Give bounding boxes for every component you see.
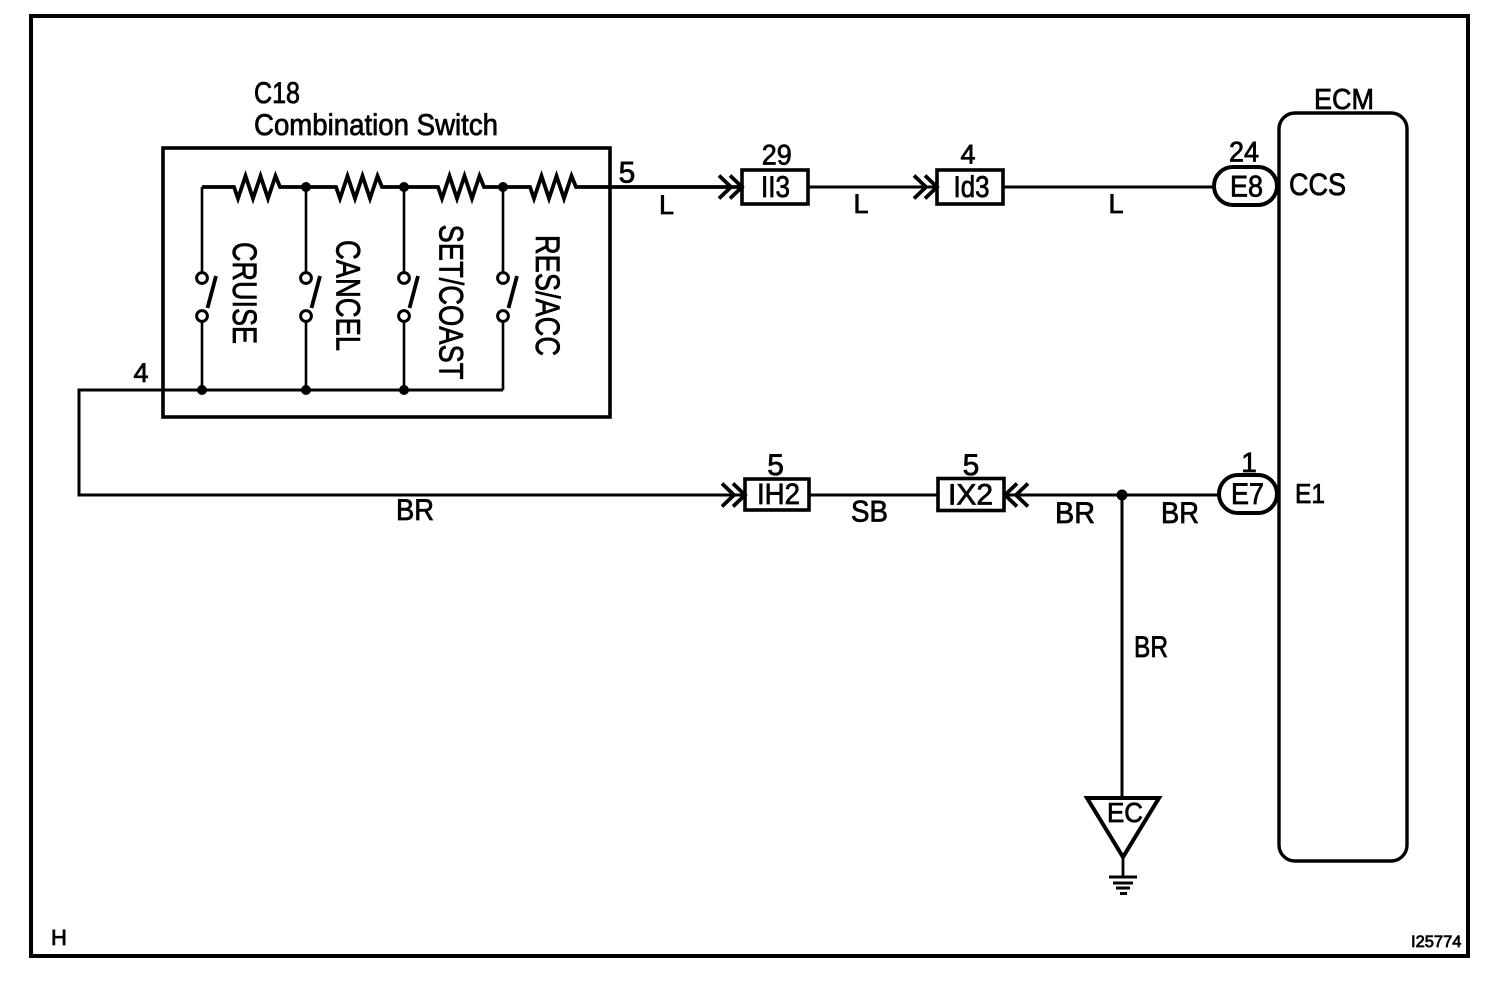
svg-text:5: 5 [963,449,980,482]
svg-text:29: 29 [762,140,792,172]
svg-text:CCS: CCS [1289,167,1346,202]
svg-text:BR: BR [396,494,434,527]
svg-text:RES/ACC: RES/ACC [528,235,566,356]
svg-text:CANCEL: CANCEL [328,240,366,351]
svg-text:EC: EC [1107,797,1143,828]
svg-text:4: 4 [960,140,975,170]
svg-text:C18: C18 [254,77,300,110]
svg-text:IX2: IX2 [948,479,993,512]
svg-text:I25774: I25774 [1411,933,1461,951]
svg-text:SB: SB [851,495,888,528]
svg-text:5: 5 [767,449,784,482]
svg-text:BR: BR [1161,497,1199,530]
svg-text:SET/COAST: SET/COAST [432,225,470,380]
svg-text:1: 1 [1241,447,1257,478]
svg-text:Id3: Id3 [954,171,990,204]
svg-text:CRUISE: CRUISE [225,242,263,344]
svg-text:E7: E7 [1231,478,1264,511]
svg-text:5: 5 [619,157,636,190]
svg-text:IH2: IH2 [757,478,800,511]
svg-text:II3: II3 [761,171,790,204]
svg-text:4: 4 [133,358,148,388]
svg-text:ECM: ECM [1314,84,1374,116]
svg-text:BR: BR [1134,631,1168,664]
svg-text:L: L [853,189,868,219]
svg-text:H: H [51,925,67,950]
svg-text:BR: BR [1055,497,1095,530]
svg-text:Combination Switch: Combination Switch [254,109,498,142]
svg-text:24: 24 [1229,136,1259,168]
svg-text:E8: E8 [1230,171,1263,204]
svg-text:E1: E1 [1295,478,1325,509]
svg-text:L: L [659,190,674,220]
svg-text:L: L [1108,189,1123,219]
